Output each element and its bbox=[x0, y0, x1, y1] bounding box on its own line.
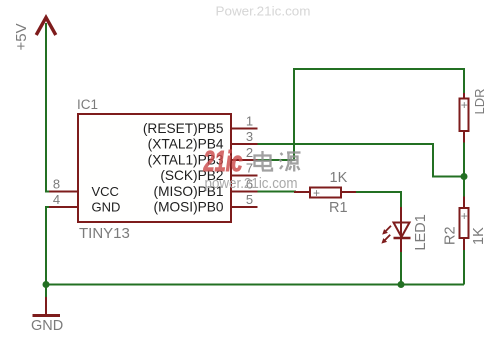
IC1 pin 6 (PB1) bbox=[232, 177, 258, 192]
photoresistor LDR bbox=[460, 88, 488, 142]
wire LED1 to ground rail bbox=[400, 252, 402, 285]
svg-text:+: + bbox=[461, 209, 468, 223]
svg-text:R2: R2 bbox=[443, 226, 459, 245]
wire ground rail bbox=[45, 284, 464, 286]
LED LED1 bbox=[381, 207, 429, 252]
svg-text:TINY13: TINY13 bbox=[79, 225, 130, 242]
IC1 pin 8 (VCC) bbox=[49, 177, 79, 192]
watermark chinese characters dian-yuan bbox=[255, 151, 301, 172]
svg-text:R1: R1 bbox=[329, 200, 348, 216]
ground symbol GND bbox=[31, 285, 63, 335]
wire divider node to R2 bbox=[463, 177, 465, 198]
IC1 pin 7 (PB2) bbox=[232, 161, 258, 176]
svg-text:(MOSI)PB0: (MOSI)PB0 bbox=[154, 200, 224, 215]
svg-text:5: 5 bbox=[246, 192, 253, 207]
svg-text:LED1: LED1 bbox=[413, 214, 429, 250]
wire pin 4 GND down to ground rail bbox=[46, 207, 51, 285]
wire +5V to VCC pin 8 bbox=[46, 23, 51, 192]
wire LDR bottom to divider node bbox=[463, 142, 465, 177]
IC1 pin 3 (PB4) bbox=[232, 129, 258, 144]
resistor R1 1K bbox=[294, 170, 356, 216]
svg-text:2: 2 bbox=[246, 145, 253, 160]
power +5V symbol P1 bbox=[13, 18, 56, 51]
svg-text:1K: 1K bbox=[330, 170, 348, 186]
svg-text:(RESET)PB5: (RESET)PB5 bbox=[143, 121, 224, 136]
svg-text:1: 1 bbox=[246, 114, 253, 129]
svg-text:+: + bbox=[313, 186, 320, 200]
svg-text:4: 4 bbox=[53, 192, 60, 207]
svg-text:Power.21ic.com: Power.21ic.com bbox=[216, 5, 311, 19]
svg-text:VCC: VCC bbox=[92, 184, 119, 199]
svg-text:21ic: 21ic bbox=[203, 146, 243, 178]
wire R2 to ground rail bbox=[463, 250, 465, 285]
IC IC1 TINY13 body bbox=[77, 97, 231, 242]
wire pin 2 to LDR top bbox=[258, 69, 465, 160]
svg-text:3: 3 bbox=[246, 129, 253, 144]
IC1 pin 1 (PB5) bbox=[232, 114, 258, 129]
svg-text:1K: 1K bbox=[471, 227, 487, 245]
junction node divider (LDR/R2/pin3) bbox=[461, 173, 468, 180]
wire pin 6 to R1 bbox=[258, 191, 297, 193]
svg-text:LDR: LDR bbox=[472, 88, 487, 114]
IC1 pin 2 (PB3) bbox=[232, 145, 258, 160]
svg-text:7: 7 bbox=[246, 161, 253, 176]
IC1 pin 5 (PB0) bbox=[232, 192, 258, 207]
junction node LED1 on ground rail bbox=[398, 281, 405, 288]
svg-text:GND: GND bbox=[31, 318, 63, 334]
watermark 21ic logo bbox=[203, 146, 243, 178]
junction node GND on ground rail bbox=[43, 281, 50, 288]
IC1 pin 4 (GND) bbox=[49, 192, 79, 207]
resistor R2 1K bbox=[443, 197, 488, 251]
svg-text:power.21ic.com: power.21ic.com bbox=[205, 176, 298, 192]
svg-text:+5V: +5V bbox=[13, 23, 30, 50]
wire pin 3 to divider node bbox=[258, 144, 462, 177]
svg-text:IC1: IC1 bbox=[77, 97, 98, 112]
wire R1 to LED1 bbox=[355, 192, 401, 207]
svg-text:8: 8 bbox=[53, 177, 60, 192]
svg-text:GND: GND bbox=[92, 200, 121, 215]
svg-text:+: + bbox=[461, 98, 468, 112]
